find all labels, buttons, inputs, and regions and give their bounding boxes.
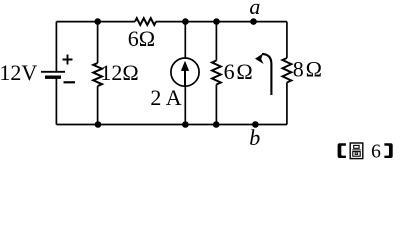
node dot top I1 (182, 18, 189, 25)
resistor R2 12ohm vertical (93, 63, 102, 86)
wire R2 column upper (97, 22, 99, 63)
svg-text:6 Ω: 6 Ω (224, 59, 253, 84)
node dot top R2 (94, 18, 101, 25)
figure caption bracket right (384, 143, 392, 158)
svg-text:12Ω: 12Ω (100, 60, 138, 85)
wire right column lower (286, 83, 288, 125)
wire I1 column upper (184, 22, 186, 59)
node dot top R3 (213, 18, 220, 25)
minus sign (64, 81, 76, 83)
node dot bottom R3 (213, 121, 220, 128)
wire top right (156, 21, 287, 23)
wire R3 column lower (215, 85, 217, 125)
resistor R4 8ohm vertical (283, 58, 292, 82)
wire right column upper (286, 22, 288, 58)
resistor R1 6ohm horizontal (135, 18, 156, 25)
node dot bottom R2 (95, 121, 102, 128)
mesh current arrow (262, 54, 271, 95)
svg-text:12V: 12V (0, 60, 37, 85)
plus sign (63, 55, 73, 65)
svg-text:b: b (249, 125, 260, 150)
battery V1 short plate (45, 75, 61, 78)
wire left upper (55, 22, 57, 72)
current source I1 arrow (184, 70, 186, 87)
svg-text:a: a (249, 0, 260, 19)
svg-text:8 Ω: 8 Ω (293, 56, 322, 81)
current source I1 circle (171, 58, 199, 86)
node b dot (252, 121, 259, 128)
figure caption glyph tu (圖) (350, 143, 363, 159)
battery V1 long plate (41, 71, 65, 73)
svg-text:2 A: 2 A (150, 85, 181, 110)
node dot bottom I1 (182, 121, 189, 128)
wire top (56, 21, 135, 23)
figure caption bracket left (338, 143, 346, 158)
wire R2 column lower (97, 86, 99, 124)
svg-text:6: 6 (371, 142, 381, 163)
wire left lower (55, 77, 57, 124)
wire bottom (56, 124, 287, 126)
wire R3 column upper (215, 22, 217, 61)
wire I1 column lower (184, 86, 186, 125)
node a dot (250, 18, 257, 25)
svg-text:6Ω: 6Ω (128, 26, 155, 51)
resistor R3 6ohm vertical (212, 61, 221, 85)
